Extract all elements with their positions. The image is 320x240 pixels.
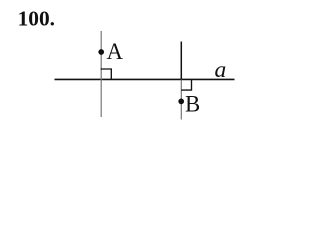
right angle marker at A [101,69,112,80]
perpendicular line through B (upper black part) [180,42,182,81]
svg-text:a: a [215,57,227,83]
svg-text:A: A [107,39,124,64]
perpendicular line through A [100,31,102,117]
svg-text:100.: 100. [18,7,55,31]
right angle marker at B [181,80,191,90]
point A dot [98,49,104,55]
perpendicular line through B (lower gray part) [180,80,182,120]
svg-text:B: B [185,92,200,117]
point B dot [178,99,184,105]
line a [55,78,235,80]
